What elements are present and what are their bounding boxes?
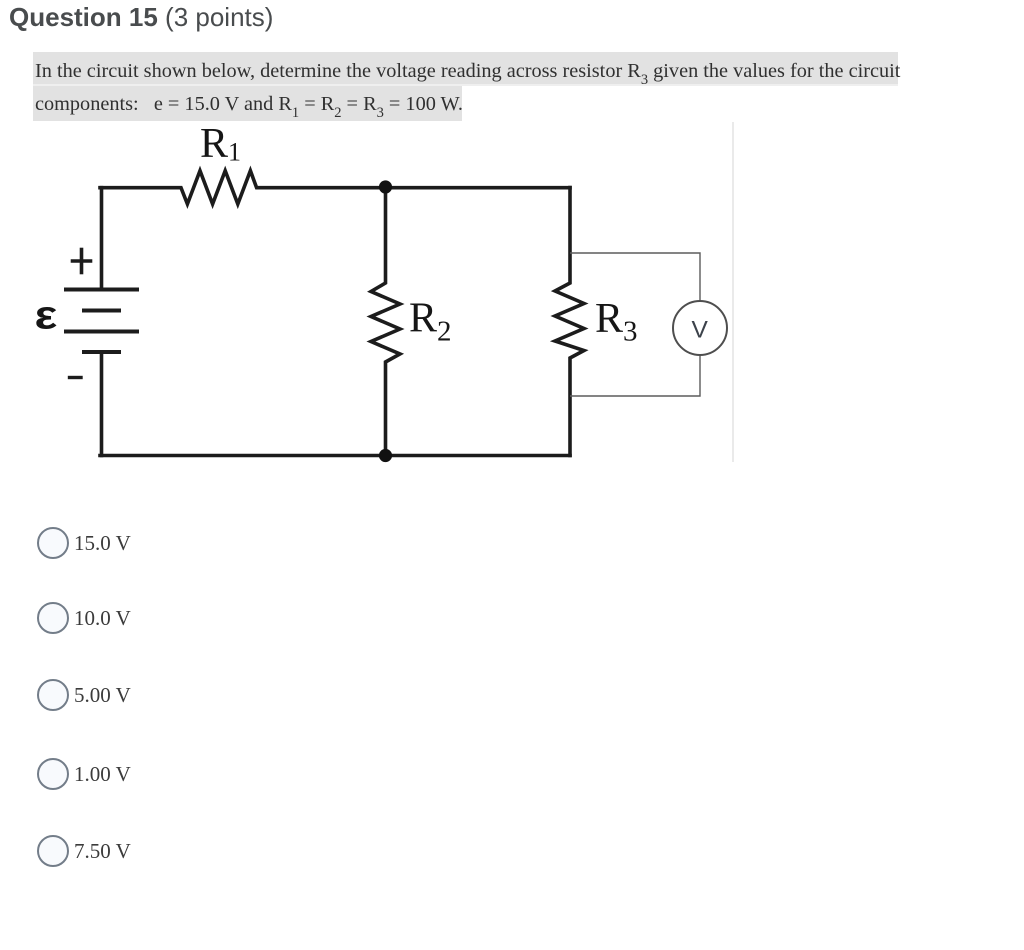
svg-text:R2: R2 <box>409 296 452 348</box>
svg-text:V: V <box>692 317 709 344</box>
svg-text:R3: R3 <box>595 296 638 348</box>
svg-text:ε: ε <box>35 293 58 337</box>
svg-text:R1: R1 <box>200 121 241 167</box>
